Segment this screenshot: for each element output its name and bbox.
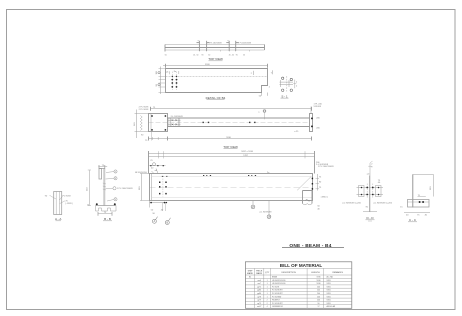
svg-text:C - C: C - C bbox=[409, 218, 417, 222]
end plate rect bbox=[149, 114, 168, 132]
angle cluster bbox=[168, 118, 170, 127]
centerline bbox=[150, 187, 313, 189]
svg-text:50: 50 bbox=[243, 54, 245, 56]
stud marks on top edge bbox=[162, 175, 256, 177]
tick pair 2 bbox=[228, 41, 230, 51]
top dim bbox=[151, 108, 312, 110]
svg-text:UB 305X165X40: UB 305X165X40 bbox=[272, 280, 285, 282]
top marks bbox=[369, 163, 371, 176]
bolts B-B bbox=[96, 203, 116, 205]
beam bar bbox=[165, 44, 265, 46]
weld ticks on web bbox=[103, 183, 106, 184]
svg-text:S355: S355 bbox=[327, 290, 331, 292]
bottom dim bbox=[363, 211, 377, 213]
svg-text:2: 2 bbox=[267, 300, 268, 302]
beam outline bbox=[150, 174, 313, 201]
bolt gauge verticals bbox=[171, 72, 173, 91]
svg-text:FILMENT: FILMENT bbox=[272, 300, 281, 302]
tick pair 1 bbox=[198, 41, 200, 51]
svg-text:PL 90X8 WIT: PL 90X8 WIT bbox=[272, 290, 284, 292]
svg-text:S355: S355 bbox=[327, 286, 331, 288]
svg-text:ANGULAR: ANGULAR bbox=[327, 305, 336, 308]
svg-text:pp86: pp86 bbox=[257, 293, 261, 295]
dim above bolts bbox=[418, 196, 426, 198]
bolts view2 bbox=[171, 76, 177, 88]
svg-text:1: 1 bbox=[267, 286, 268, 288]
svg-text:B - B: B - B bbox=[104, 217, 111, 221]
svg-text:BILL OF MATERIAL: BILL OF MATERIAL bbox=[280, 263, 323, 268]
bolts view4 left bbox=[159, 182, 167, 195]
web bbox=[369, 176, 371, 213]
svg-text:90: 90 bbox=[236, 54, 238, 56]
bottom dim bbox=[98, 213, 112, 215]
svg-text:1 PL 240X130X8: 1 PL 240X130X8 bbox=[117, 188, 133, 190]
right end callout leader bbox=[310, 107, 312, 114]
svg-text:2-L 90X90X8: 2-L 90X90X8 bbox=[171, 116, 184, 118]
svg-text:S355: S355 bbox=[327, 303, 331, 305]
left vertical dim bbox=[141, 174, 143, 201]
flange lines bbox=[168, 117, 310, 119]
right dim marks bbox=[317, 174, 319, 191]
bolts view4 right bbox=[312, 178, 313, 190]
plate at top bbox=[99, 169, 102, 180]
S-1 bolt circles bbox=[282, 77, 293, 91]
svg-text:5936: 5936 bbox=[317, 280, 321, 282]
svg-text:4: 4 bbox=[267, 306, 268, 308]
svg-text:S355: S355 bbox=[327, 300, 331, 302]
corner bolts view3 bbox=[151, 115, 166, 131]
svg-text:240: 240 bbox=[317, 286, 320, 288]
svg-text:5936: 5936 bbox=[317, 277, 321, 279]
bolts C-C bbox=[419, 201, 425, 203]
bottom dims bbox=[404, 212, 430, 214]
svg-text:5837 = 5936: 5837 = 5936 bbox=[241, 151, 253, 153]
svg-text:pp75: pp75 bbox=[257, 286, 261, 288]
callout circles B-B bbox=[106, 170, 118, 201]
svg-text:am6: am6 bbox=[257, 280, 261, 282]
svg-text:S355: S355 bbox=[327, 280, 331, 282]
svg-text:50: 50 bbox=[165, 54, 167, 56]
left vertical dim bbox=[89, 170, 91, 205]
weld flags top-left bbox=[149, 163, 166, 174]
svg-text:S355: S355 bbox=[327, 296, 331, 298]
gauge dashed line bbox=[166, 76, 268, 78]
svg-text:( 45X8 ): ( 45X8 ) bbox=[65, 203, 73, 205]
svg-text:2-L 90X90X8 L=206: 2-L 90X90X8 L=206 bbox=[373, 203, 392, 205]
right dim bbox=[433, 175, 435, 197]
section markers A B C D bbox=[152, 205, 271, 225]
svg-text:am27: am27 bbox=[257, 306, 262, 308]
dim value rings view2 bbox=[158, 72, 160, 86]
left vertical dim bbox=[136, 110, 138, 139]
svg-text:D - D: D - D bbox=[367, 216, 375, 220]
svg-text:B4: B4 bbox=[249, 277, 251, 279]
top line bbox=[413, 174, 434, 176]
svg-text:X130X8: X130X8 bbox=[314, 106, 322, 108]
break mark bottom right bbox=[306, 200, 311, 202]
svg-text:ap78: ap78 bbox=[257, 296, 261, 298]
svg-text:A - A: A - A bbox=[55, 217, 61, 221]
svg-text:( 3810 ): ( 3810 ) bbox=[321, 197, 328, 199]
left vertical dim bbox=[160, 67, 162, 95]
leader to C/D markers bbox=[252, 201, 254, 205]
svg-text:DESCRIPTION: DESCRIPTION bbox=[282, 272, 297, 274]
svg-text:240: 240 bbox=[317, 293, 320, 295]
svg-text:QTY: QTY bbox=[265, 272, 270, 274]
svg-text:TOP VIEW: TOP VIEW bbox=[223, 145, 238, 149]
top dim lines bbox=[149, 153, 315, 155]
svg-text:1: 1 bbox=[267, 283, 268, 285]
svg-text:GRIMMER M: GRIMMER M bbox=[272, 306, 283, 308]
svg-text:90: 90 bbox=[202, 54, 204, 56]
svg-text:206: 206 bbox=[317, 300, 320, 302]
svg-text:S355: S355 bbox=[327, 283, 331, 285]
svg-text:S - 1: S - 1 bbox=[281, 94, 288, 98]
svg-text:ap79: ap79 bbox=[257, 303, 261, 305]
below-bar ticks bbox=[198, 50, 200, 52]
callout marks above bolts view2 bbox=[169, 71, 179, 74]
svg-text:206: 206 bbox=[317, 296, 320, 298]
web bbox=[103, 169, 105, 206]
svg-text:1: 1 bbox=[267, 290, 268, 292]
right angle bbox=[376, 186, 382, 197]
bottom part bbox=[408, 200, 430, 208]
svg-text:UB 305X165X40: UB 305X165X40 bbox=[272, 283, 285, 285]
svg-text:UB 305X165X40: UB 305X165X40 bbox=[135, 172, 147, 174]
angle rows bbox=[357, 187, 384, 189]
right end plate bbox=[312, 174, 314, 191]
weld zigzag bbox=[140, 116, 142, 131]
tiny arrows bbox=[198, 41, 238, 44]
svg-text:PL 90X8 WIT: PL 90X8 WIT bbox=[272, 293, 284, 295]
stud marks view3 centerline bbox=[203, 118, 314, 128]
left angle bbox=[359, 186, 365, 197]
stud callout bbox=[263, 110, 265, 112]
beam outline bbox=[166, 69, 268, 93]
svg-text:LENGTH: LENGTH bbox=[311, 272, 320, 274]
svg-text:90: 90 bbox=[318, 303, 320, 305]
centerline bbox=[149, 121, 310, 123]
svg-text:REMARKS: REMARKS bbox=[333, 271, 344, 274]
tall plate bbox=[412, 175, 414, 208]
svg-text:BEAM: BEAM bbox=[272, 276, 278, 279]
svg-text:DETAIL OF B4: DETAIL OF B4 bbox=[206, 96, 226, 100]
top dim bbox=[98, 166, 107, 168]
svg-text:TOP VIEW: TOP VIEW bbox=[208, 57, 223, 61]
faint flange inner lines bbox=[152, 176, 313, 178]
svg-text:1: 1 bbox=[267, 293, 268, 295]
svg-text:MARK: MARK bbox=[256, 272, 263, 275]
svg-text:17: 17 bbox=[318, 306, 320, 308]
svg-text:25 , 50: 25 , 50 bbox=[229, 54, 234, 56]
plate under right end bbox=[303, 191, 313, 204]
dim arrow dots bottom-left bbox=[150, 202, 167, 204]
svg-text:25 , 50: 25 , 50 bbox=[193, 54, 198, 56]
svg-text:PL 90X8 WIT: PL 90X8 WIT bbox=[272, 303, 284, 305]
svg-text:240: 240 bbox=[317, 290, 320, 292]
svg-text:pp86: pp86 bbox=[257, 290, 261, 292]
bolt X marks view3 bbox=[172, 119, 178, 125]
svg-text:2-L 90X90X8 L=206: 2-L 90X90X8 L=206 bbox=[342, 203, 361, 205]
svg-text:5936: 5936 bbox=[317, 283, 321, 285]
right end plate bbox=[310, 114, 313, 132]
svg-text:1 PL 240X130X8: 1 PL 240X130X8 bbox=[238, 43, 251, 45]
svg-text:2-L 90X90X8: 2-L 90X90X8 bbox=[259, 211, 272, 213]
svg-text:ap79: ap79 bbox=[257, 300, 261, 302]
svg-text:MARK: MARK bbox=[247, 272, 254, 275]
svg-text:PL 90X8 AT: PL 90X8 AT bbox=[272, 295, 282, 298]
bolt gauge vertical bbox=[162, 179, 164, 197]
svg-text:1 PL 240X130X8: 1 PL 240X130X8 bbox=[318, 166, 334, 168]
svg-text:PL 90X8: PL 90X8 bbox=[272, 286, 279, 288]
diagonal leader bbox=[297, 177, 311, 191]
bottom flange bbox=[96, 205, 117, 207]
bolts D-D bbox=[361, 187, 380, 196]
svg-text:50: 50 bbox=[208, 54, 210, 56]
svg-text:1 PL 240X130X8: 1 PL 240X130X8 bbox=[209, 43, 222, 45]
svg-text:2 PL 90X8: 2 PL 90X8 bbox=[139, 109, 149, 111]
small callout marks view2 bbox=[254, 70, 273, 96]
svg-text:2: 2 bbox=[267, 303, 268, 305]
svg-text:S355: S355 bbox=[327, 293, 331, 295]
svg-text:am7: am7 bbox=[257, 283, 261, 285]
svg-text:1: 1 bbox=[267, 280, 268, 282]
bottom dim bbox=[149, 138, 312, 140]
top dim line bbox=[163, 65, 268, 67]
bottom-left dims bbox=[150, 202, 167, 204]
svg-text:ALL NA: ALL NA bbox=[327, 276, 334, 279]
svg-text:1: 1 bbox=[267, 296, 268, 298]
svg-text:PL 90X8: PL 90X8 bbox=[63, 196, 72, 198]
